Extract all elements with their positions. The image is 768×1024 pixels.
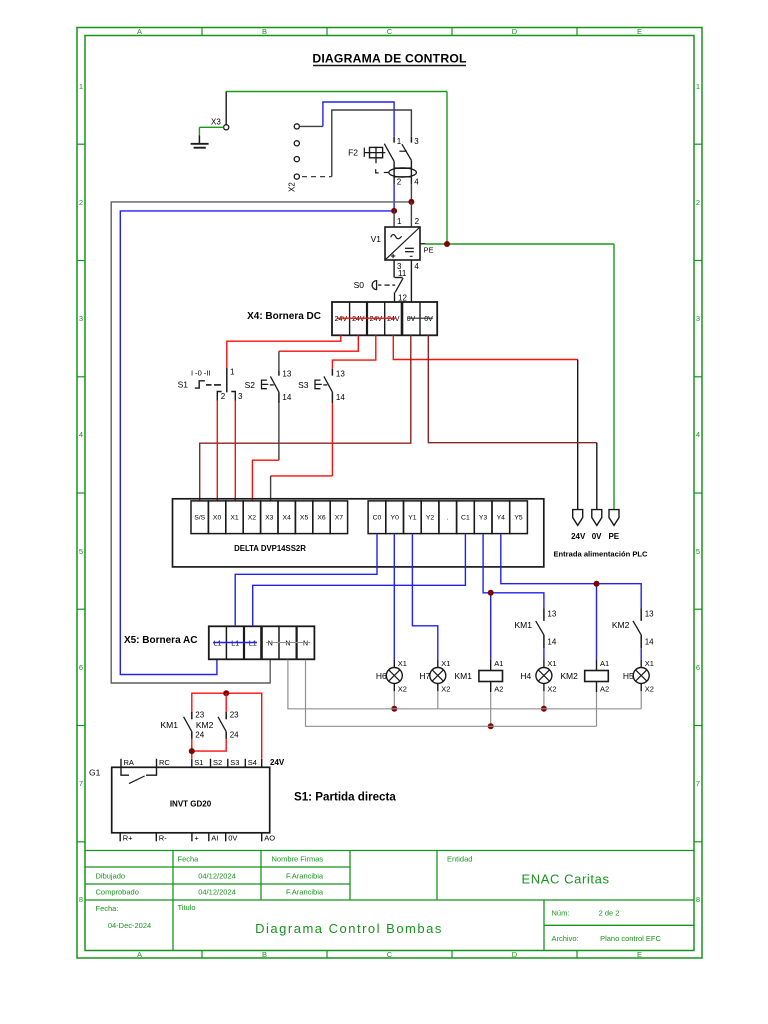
terminal X3 [211, 92, 229, 130]
pushbutton S3 [315, 369, 332, 403]
svg-text:X5: X5 [300, 515, 309, 522]
svg-text:3: 3 [414, 137, 419, 146]
svg-text:X5: Bornera AC: X5: Bornera AC [124, 635, 198, 646]
aux contact KM2 23-24 labels [196, 711, 239, 740]
svg-text:C: C [387, 27, 393, 36]
svg-text:L1: L1 [231, 640, 239, 647]
svg-text:DIAGRAMA DE CONTROL: DIAGRAMA DE CONTROL [312, 52, 467, 66]
aux contact KM1 13-14 [536, 608, 544, 648]
wire F2 pole2 out gray [410, 184, 412, 202]
INVT top terminal labels [124, 758, 285, 767]
node PE junction [444, 241, 450, 247]
svg-text:N: N [285, 640, 290, 647]
svg-text:0V: 0V [407, 316, 416, 323]
svg-text:F.Arancibia: F.Arancibia [286, 872, 324, 881]
svg-text:.: . [447, 515, 449, 522]
svg-text:B: B [262, 27, 267, 36]
svg-text:Fecha: Fecha [178, 855, 200, 864]
svg-text:H6: H6 [376, 671, 387, 681]
wire S2 drop dark [278, 351, 280, 371]
node H6 bus [391, 706, 397, 712]
svg-text:RA: RA [124, 758, 134, 767]
svg-text:R+: R+ [123, 833, 133, 842]
svg-text:E: E [637, 950, 642, 959]
svg-text:KM2: KM2 [560, 671, 578, 681]
svg-text:Y4: Y4 [497, 515, 506, 522]
svg-text:C0: C0 [373, 515, 382, 522]
svg-text:X3: X3 [265, 515, 274, 522]
PLC output terminals [368, 501, 527, 534]
wire X2 pin4 dashed [302, 176, 332, 178]
wire Y1 to H7 blue [412, 534, 437, 660]
lamp H5 labels [623, 659, 654, 694]
lamp H6 [386, 660, 402, 692]
svg-text:2 de 2: 2 de 2 [599, 909, 620, 918]
svg-text:H7: H7 [419, 671, 430, 681]
drive INVT GD20 box [112, 767, 270, 833]
lamp H4 labels [520, 659, 556, 694]
svg-text:S1: Partida directa: S1: Partida directa [294, 791, 396, 804]
wire S2-14 to X2 [252, 403, 279, 501]
svg-text:S3: S3 [298, 380, 309, 390]
svg-text:INVT GD20: INVT GD20 [170, 800, 212, 809]
svg-text:B: B [262, 950, 267, 959]
PLC input terminal labels [194, 515, 343, 522]
svg-text:X6: X6 [317, 515, 326, 522]
wire 0V arrow drop black [596, 443, 598, 510]
wire X4-1 to S1 red [227, 335, 341, 368]
svg-text:04-Dec-2024: 04-Dec-2024 [108, 921, 151, 930]
svg-text:7: 7 [696, 779, 700, 788]
selector S1 labels [178, 368, 243, 402]
X4 0V link dark [408, 317, 433, 319]
wire KM2-A2 to bus2 gray [596, 692, 598, 726]
svg-text:24V: 24V [387, 316, 400, 323]
svg-text:D: D [512, 950, 518, 959]
svg-text:L1: L1 [249, 640, 257, 647]
wire S1-2 to X0 red [216, 401, 218, 501]
svg-text:23: 23 [195, 711, 204, 720]
svg-text:DELTA DVP14SS2R: DELTA DVP14SS2R [234, 544, 306, 553]
wire X2 pin1 stub [299, 125, 323, 127]
svg-text:13: 13 [336, 370, 345, 379]
svg-text:2: 2 [415, 217, 420, 226]
svg-text:11: 11 [398, 269, 407, 278]
wire KM1-24 drop red [191, 739, 193, 759]
svg-text:N: N [268, 640, 273, 647]
wire 24V arrow drop black [577, 360, 579, 510]
wire H5 to bus gray [640, 691, 642, 709]
wire PE to arrow green [613, 244, 615, 510]
svg-text:F.Arancibia: F.Arancibia [286, 888, 324, 897]
svg-text:4: 4 [696, 430, 700, 439]
wire S3-14 to X3 [271, 403, 333, 501]
wire H4 to bus gray [543, 691, 545, 709]
aux contact KM2 23-24 [218, 712, 226, 739]
svg-text:X3: X3 [211, 118, 221, 127]
arrow PE [609, 510, 619, 526]
svg-text:X1: X1 [441, 659, 450, 668]
svg-text:14: 14 [645, 638, 654, 647]
svg-text:X4: X4 [283, 515, 292, 522]
svg-text:1: 1 [397, 137, 402, 146]
svg-text:Archivo:: Archivo: [552, 934, 579, 943]
N bus 2 gray [306, 660, 597, 727]
wire N feed gray [332, 110, 412, 177]
svg-text:S/S: S/S [194, 515, 205, 522]
svg-text:Núm:: Núm: [552, 909, 570, 918]
node H4 bus [541, 706, 547, 712]
wire KM1-14 to H4 blue [543, 648, 545, 659]
emergency stop S0 [372, 278, 403, 303]
ground [191, 127, 224, 147]
svg-text:6: 6 [696, 663, 700, 672]
svg-text:KM2: KM2 [612, 620, 630, 630]
pushbutton S2 labels [245, 370, 292, 402]
aux contact KM1 23-24 [184, 712, 192, 739]
svg-text:I -0 -II: I -0 -II [191, 369, 211, 378]
svg-text:1: 1 [696, 82, 700, 91]
svg-text:Plano control EFC: Plano control EFC [600, 934, 661, 943]
wire KM aux 23 feed red [192, 693, 262, 758]
node Y3 junction [488, 590, 494, 596]
svg-text:AI: AI [211, 833, 218, 842]
svg-text:X2: X2 [398, 685, 407, 694]
svg-text:G1: G1 [89, 768, 101, 778]
svg-text:C: C [387, 950, 393, 959]
svg-text:Comprobado: Comprobado [96, 888, 139, 897]
wire N rail dark [111, 202, 411, 683]
aux contact KM2 13-14 [633, 608, 641, 648]
svg-text:Y5: Y5 [514, 515, 523, 522]
wire X4-2 to S2 red [279, 335, 358, 351]
svg-text:6: 6 [79, 663, 83, 672]
svg-text:PE: PE [608, 532, 619, 541]
wire Y4 to KM2 coil blue [596, 584, 598, 660]
X4 24V link red [337, 317, 397, 319]
wire KM2-23 drop red [225, 693, 227, 712]
coil KM2 [585, 659, 609, 692]
svg-text:3: 3 [238, 392, 243, 401]
connector X2 [288, 124, 300, 192]
svg-text:+: + [194, 833, 199, 842]
aux contact KM2 labels [612, 610, 654, 647]
svg-text:Entidad: Entidad [447, 855, 472, 864]
lamp H7 [430, 660, 446, 692]
svg-text:A1: A1 [600, 659, 609, 668]
svg-text:S1: S1 [178, 380, 189, 390]
wire PE horizontal green [426, 243, 614, 245]
breaker F2 [364, 137, 416, 185]
svg-text:04/12/2024: 04/12/2024 [198, 872, 236, 881]
title block footer labels [96, 903, 662, 943]
svg-text:Y1: Y1 [408, 515, 417, 522]
svg-text:24V: 24V [335, 316, 348, 323]
breaker F2 labels [348, 137, 419, 186]
PLC output terminal labels [373, 515, 523, 522]
svg-text:4: 4 [79, 430, 83, 439]
node L junction [391, 208, 397, 214]
svg-text:X1: X1 [645, 659, 654, 668]
svg-text:8: 8 [696, 895, 700, 904]
lamp H4 [536, 660, 552, 692]
lamp H7 labels [419, 659, 450, 694]
wire C0 to X5 blue [235, 534, 377, 627]
svg-text:3: 3 [79, 314, 83, 323]
PLC input terminals [191, 501, 348, 534]
X5 N link gray [266, 642, 310, 644]
svg-text:1: 1 [397, 217, 402, 226]
node Y4 junction [594, 581, 600, 587]
svg-text:X4: Bornera DC: X4: Bornera DC [247, 311, 321, 322]
terminal block X5 labels [214, 640, 308, 647]
node KM1 bus2 [488, 723, 494, 729]
wire Y3 to KM1 coil blue [490, 593, 492, 660]
svg-text:7: 7 [79, 779, 83, 788]
terminal block X4 labels [335, 316, 434, 323]
svg-text:2: 2 [397, 178, 402, 187]
title block header labels [96, 855, 473, 897]
svg-text:L1: L1 [214, 640, 222, 647]
svg-text:S2: S2 [245, 380, 256, 390]
svg-text:5: 5 [696, 547, 700, 556]
wire L feed blue [323, 102, 394, 137]
svg-text:AO: AO [264, 833, 275, 842]
wire KM1-A2 to bus2 gray [490, 692, 492, 726]
svg-text:R-: R- [159, 833, 167, 842]
svg-text:24V: 24V [270, 758, 285, 767]
wire C1 to X5 blue [253, 534, 466, 627]
wire L rail blue [120, 211, 394, 675]
svg-text:13: 13 [547, 610, 556, 619]
wire S1-3 to X1 red [234, 401, 236, 501]
svg-text:14: 14 [336, 393, 345, 402]
wire Y0 to H6 blue [393, 534, 395, 660]
wire X4-3 to S3 red [332, 335, 375, 369]
svg-text:S0: S0 [354, 280, 365, 290]
svg-text:X2: X2 [248, 515, 257, 522]
node S1 feed junction [189, 748, 195, 754]
svg-text:8: 8 [79, 895, 83, 904]
svg-text:Y3: Y3 [479, 515, 488, 522]
svg-text:2: 2 [79, 198, 83, 207]
node KM2-23 junction [223, 690, 229, 696]
relay contact G1 [121, 767, 157, 783]
svg-text:N: N [303, 640, 308, 647]
svg-text:Dibujado: Dibujado [96, 872, 126, 881]
X5 L1 link blue [213, 642, 257, 644]
svg-text:D: D [512, 27, 518, 36]
svg-text:KM2: KM2 [196, 720, 214, 730]
svg-text:X0: X0 [213, 515, 222, 522]
svg-text:0V: 0V [228, 833, 237, 842]
svg-text:X7: X7 [335, 515, 344, 522]
wire KM2-14 to H5 blue [640, 648, 642, 659]
svg-text:A1: A1 [494, 659, 503, 668]
svg-text:2: 2 [221, 392, 226, 401]
svg-text:0V: 0V [592, 532, 602, 541]
svg-text:Nombre Firmas: Nombre Firmas [272, 855, 324, 864]
svg-text:RC: RC [159, 758, 170, 767]
PLC DELTA DVP14SS2R box [173, 499, 544, 567]
svg-text:13: 13 [645, 610, 654, 619]
wire Y3 blue [483, 534, 544, 609]
svg-text:A2: A2 [494, 685, 503, 694]
coil KM1 [479, 659, 503, 692]
svg-text:14: 14 [547, 638, 556, 647]
drawing title [312, 52, 467, 66]
terminal block X5 [209, 626, 315, 659]
power supply V1 [385, 202, 426, 302]
arrow labels [571, 532, 620, 541]
svg-text:S4: S4 [248, 758, 257, 767]
svg-text:A2: A2 [600, 685, 609, 694]
svg-text:24: 24 [230, 731, 239, 740]
svg-text:1: 1 [230, 368, 235, 377]
svg-text:X1: X1 [547, 659, 556, 668]
node N junction [408, 199, 414, 205]
svg-text:5: 5 [79, 547, 83, 556]
terminal block X4 [332, 302, 437, 335]
wire PE top green [226, 91, 447, 93]
svg-text:23: 23 [230, 711, 239, 720]
pushbutton S2 [262, 371, 279, 403]
svg-text:S1: S1 [194, 758, 203, 767]
svg-text:S2: S2 [213, 758, 222, 767]
svg-text:E: E [637, 27, 642, 36]
coil KM1 labels [455, 659, 504, 694]
wire H6 to bus gray [393, 691, 395, 709]
svg-text:KM1: KM1 [161, 720, 179, 730]
svg-text:X2: X2 [547, 685, 556, 694]
svg-text:PE: PE [424, 246, 434, 255]
wire F2 pole1 out blue [393, 184, 395, 211]
svg-text:Titulo: Titulo [178, 903, 196, 912]
emergency stop S0 labels [354, 269, 408, 303]
svg-text:Diagrama Control Bombas: Diagrama Control Bombas [255, 921, 443, 936]
svg-text:0V: 0V [424, 316, 433, 323]
lamp H5 [633, 660, 649, 692]
wire KM 24 to S1 red [192, 739, 226, 751]
svg-text:A: A [137, 27, 142, 36]
svg-text:24V: 24V [571, 532, 586, 541]
N bus 1 gray [288, 660, 641, 709]
svg-text:4: 4 [414, 262, 419, 271]
svg-text:KM1: KM1 [455, 671, 473, 681]
pushbutton S3 labels [298, 370, 345, 402]
selector S1 [195, 368, 236, 401]
wire PE drop green [446, 92, 448, 245]
svg-text:H4: H4 [520, 671, 531, 681]
svg-text:14: 14 [282, 393, 291, 402]
INVT bottom terminal pins [120, 833, 262, 842]
wire H7 to bus gray [437, 691, 439, 709]
svg-text:X1: X1 [398, 659, 407, 668]
svg-text:Entrada alimentación PLC: Entrada alimentación PLC [553, 550, 648, 559]
svg-text:2: 2 [696, 198, 700, 207]
arrow 24V [573, 510, 583, 526]
svg-text:C1: C1 [461, 515, 470, 522]
svg-text:X2: X2 [288, 182, 297, 192]
svg-text:ENAC Caritas: ENAC Caritas [521, 872, 609, 887]
arrow 0V [592, 510, 602, 526]
svg-text:Y0: Y0 [391, 515, 400, 522]
svg-text:V1: V1 [371, 234, 382, 244]
svg-text:S3: S3 [230, 758, 239, 767]
svg-text:24V: 24V [370, 316, 383, 323]
svg-text:4: 4 [414, 178, 419, 187]
INVT bottom terminal labels [123, 833, 276, 842]
wire X4-6 0V to arrow dark red [428, 335, 597, 442]
svg-text:1: 1 [79, 82, 83, 91]
svg-text:Fecha:: Fecha: [96, 904, 119, 913]
INVT top terminal pins [121, 759, 262, 768]
aux contact KM1 23-24 labels [161, 711, 205, 740]
svg-text:04/12/2024: 04/12/2024 [198, 888, 236, 897]
svg-text:Y2: Y2 [426, 515, 435, 522]
svg-text:X2: X2 [441, 685, 450, 694]
svg-text:F2: F2 [348, 148, 358, 158]
coil KM2 labels [560, 659, 609, 694]
svg-text:H5: H5 [623, 671, 634, 681]
svg-text:KM1: KM1 [515, 620, 533, 630]
wire Y4 blue [501, 534, 641, 609]
svg-text:13: 13 [282, 370, 291, 379]
power supply V1 labels [371, 217, 434, 271]
lamp H6 labels [376, 659, 407, 694]
svg-text:24V: 24V [352, 316, 365, 323]
svg-text:3: 3 [696, 314, 700, 323]
svg-text:X2: X2 [645, 685, 654, 694]
svg-text:X1: X1 [230, 515, 239, 522]
title block lines [85, 851, 694, 951]
wire X4-4 to 24V arrow red [393, 335, 577, 359]
wire X4-5 0V to S/S dark red [200, 335, 411, 501]
svg-text:24: 24 [195, 731, 204, 740]
svg-text:A: A [137, 950, 142, 959]
aux contact KM1 labels [515, 610, 557, 647]
